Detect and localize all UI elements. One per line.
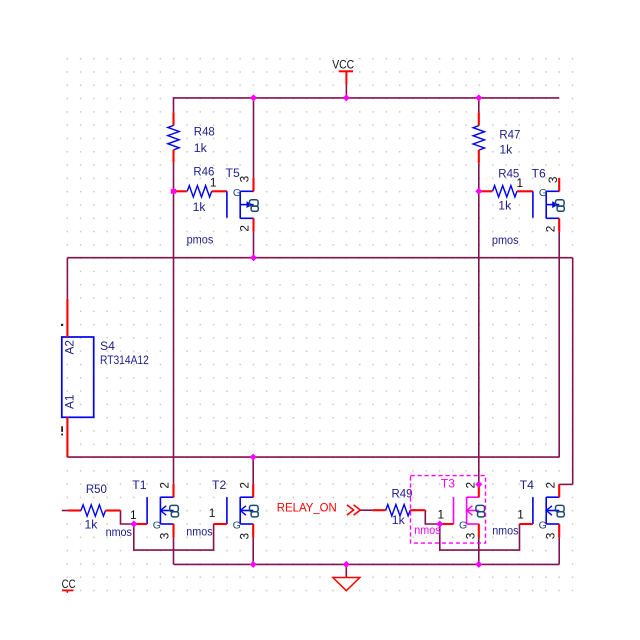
svg-text:2: 2 [543,482,557,489]
svg-text:G: G [233,187,241,199]
svg-text:1: 1 [130,508,137,522]
svg-text:2: 2 [237,482,251,489]
resistor R46 1k [174,165,227,214]
svg-text:T2: T2 [212,478,226,492]
transistor T1 (nmos) [147,497,178,531]
svg-text:G: G [539,519,547,531]
svg-text:1: 1 [209,506,216,520]
svg-text:nmos: nmos [186,524,212,538]
svg-text:S4: S4 [100,339,115,353]
wire right column upper [478,97,480,112]
wire left column long down to T1 [173,191,175,484]
svg-text:1k: 1k [498,199,512,213]
svg-text:CC: CC [62,579,76,591]
svg-text:2: 2 [464,482,478,489]
resistor R47 1k [473,112,521,163]
resistor R45 1k [479,167,533,213]
wire T1 source down [173,537,175,564]
wire T5 pin2 to A2 rail [253,232,255,258]
svg-text:pmos: pmos [492,233,519,247]
svg-text:T1: T1 [132,478,146,492]
svg-text:1k: 1k [392,513,406,527]
svg-text:G: G [539,187,547,199]
resistor R50 1k [68,482,121,531]
wire T3 source down [478,537,480,564]
wire right column long down to T3 [478,191,480,484]
svg-text:G: G [233,519,241,531]
svg-text:1k: 1k [194,141,208,155]
svg-text:R47: R47 [499,127,520,141]
svg-text:A1: A1 [63,395,77,409]
wire T2 source down [252,537,254,564]
T3 pins and labels [414,476,479,539]
junction square at R46 pin1 [171,188,483,195]
power symbol CC (bottom-left) [62,579,76,593]
svg-text:nmos: nmos [414,523,440,537]
wire R49 to T3 gate [425,510,440,524]
wire RELAY_ON stub [361,509,373,511]
svg-text:pmos: pmos [187,233,214,247]
svg-text:R49: R49 [392,487,413,501]
wire A2 rail [67,257,572,259]
transistor T3 (nmos) [454,497,485,531]
wire T5 drain column [253,98,255,178]
T2 pins and labels [186,478,253,539]
wire T1-T2 gate bus [134,524,214,550]
svg-text:3: 3 [158,532,172,539]
wire T2 drain from A1 rail [252,457,254,484]
svg-text:3: 3 [543,532,557,539]
svg-text:T3: T3 [441,476,455,490]
svg-text:nmos: nmos [492,523,518,537]
T5 pins and labels [187,166,254,246]
resistor R48 1k [168,112,215,163]
wire A1 rail [67,456,559,458]
wire R48 to R46 junction [173,163,175,191]
svg-text:G: G [153,519,161,531]
svg-text:T4: T4 [520,478,534,492]
transistor T4 (nmos) [533,497,564,531]
wire T3-T4 gate bus [440,524,520,550]
svg-text:3: 3 [464,532,478,539]
wire top VCC rail [174,97,559,99]
power symbol VCC [332,59,354,84]
svg-text:R50: R50 [86,482,107,496]
wire right edge column [572,258,574,485]
wire ground stem [345,564,347,577]
svg-text:1k: 1k [499,142,513,156]
svg-text:1: 1 [210,176,217,190]
svg-text:1: 1 [517,176,524,190]
svg-text:VCC: VCC [332,59,354,71]
svg-text:2: 2 [543,226,557,233]
svg-text:1k: 1k [85,518,99,532]
wire VCC stub [345,85,347,98]
net label RELAY_ON with off-page connector chevron [277,503,361,516]
wire T6 pin2 down to A1 rail [558,232,560,457]
wire R50 to T1 gate [121,511,134,525]
wire R50 left stub [62,510,68,512]
svg-text:3: 3 [238,532,252,539]
svg-text:nmos: nmos [106,525,132,539]
svg-text:2: 2 [238,225,252,232]
wire A2 drop to relay [66,258,68,299]
wire bottom ground rail [174,563,560,565]
svg-text:3: 3 [546,176,560,183]
T4 pins and labels [492,478,559,539]
resistor R49 1k [372,487,425,528]
svg-text:1k: 1k [193,200,207,214]
svg-text:2: 2 [158,482,172,489]
svg-text:G: G [459,519,467,531]
svg-text:A2: A2 [63,340,77,354]
svg-text:R48: R48 [194,125,215,139]
wire R47 to R45 junction [478,163,480,191]
transistor T2 (nmos) [227,497,258,531]
T6 pins and labels [492,167,560,247]
svg-text:RELAY_ON: RELAY_ON [277,503,337,515]
wire left column upper [173,97,175,112]
svg-text:1: 1 [438,508,445,522]
svg-text:T6: T6 [532,167,546,181]
relay S4 RT314A12 [61,299,149,457]
wire T4 drain step [559,483,573,485]
svg-text:3: 3 [238,175,252,182]
wire T4 source down [558,537,560,564]
T3 selection highlight box [411,476,486,543]
ground symbol [333,578,360,591]
T1 pins and labels [106,478,174,539]
transistor T6 (pmos) [533,187,564,218]
svg-text:1: 1 [517,508,524,522]
transistor T5 (pmos) [227,187,258,218]
svg-text:RT314A12: RT314A12 [100,353,149,367]
